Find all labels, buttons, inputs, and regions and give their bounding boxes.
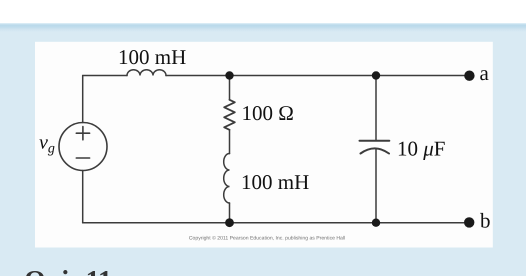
capacitor C1 top plate [360,140,390,142]
svg-text:Copyright © 2011 Pearson Educa: Copyright © 2011 Pearson Education, Inc.… [189,236,345,242]
node junction bottom capacitor [372,219,380,227]
source vg circle [59,123,107,171]
terminal a dot [464,71,474,81]
inductor L2 100 mH (vertical coil) [224,154,230,204]
plus sign [76,127,89,140]
wire left lower [82,171,84,223]
resistor R1 100 ohm [224,100,235,130]
wire bottom [83,222,470,224]
node junction bottom middle [225,218,234,227]
svg-text:100 Ω: 100 Ω [242,101,294,125]
wire top right segment [166,75,469,77]
capacitor C1 bottom curved plate [361,148,390,153]
svg-text:a: a [480,61,490,85]
wire capacitor branch upper [375,76,377,141]
minus sign [76,157,89,159]
wire middle branch upper [229,76,231,100]
svg-text:100 mH: 100 mH [118,45,186,69]
slide title Quiz 11 (cut off at bottom) [24,266,112,276]
wire between R1 and L2 [229,130,231,154]
wire left upper [82,76,84,123]
node junction top capacitor [372,71,380,79]
svg-text:10 μF: 10 μF [397,137,445,161]
svg-text:100 mH: 100 mH [241,170,309,194]
node junction top middle [225,71,233,79]
wire top left segment [83,75,127,77]
white circuit panel [35,42,493,248]
wire capacitor branch lower [375,149,377,223]
inductor L1 100 mH (top, horizontal coil) [127,70,166,76]
terminal b dot [464,217,474,227]
svg-text:b: b [480,209,491,233]
wire middle branch lower [229,203,231,223]
